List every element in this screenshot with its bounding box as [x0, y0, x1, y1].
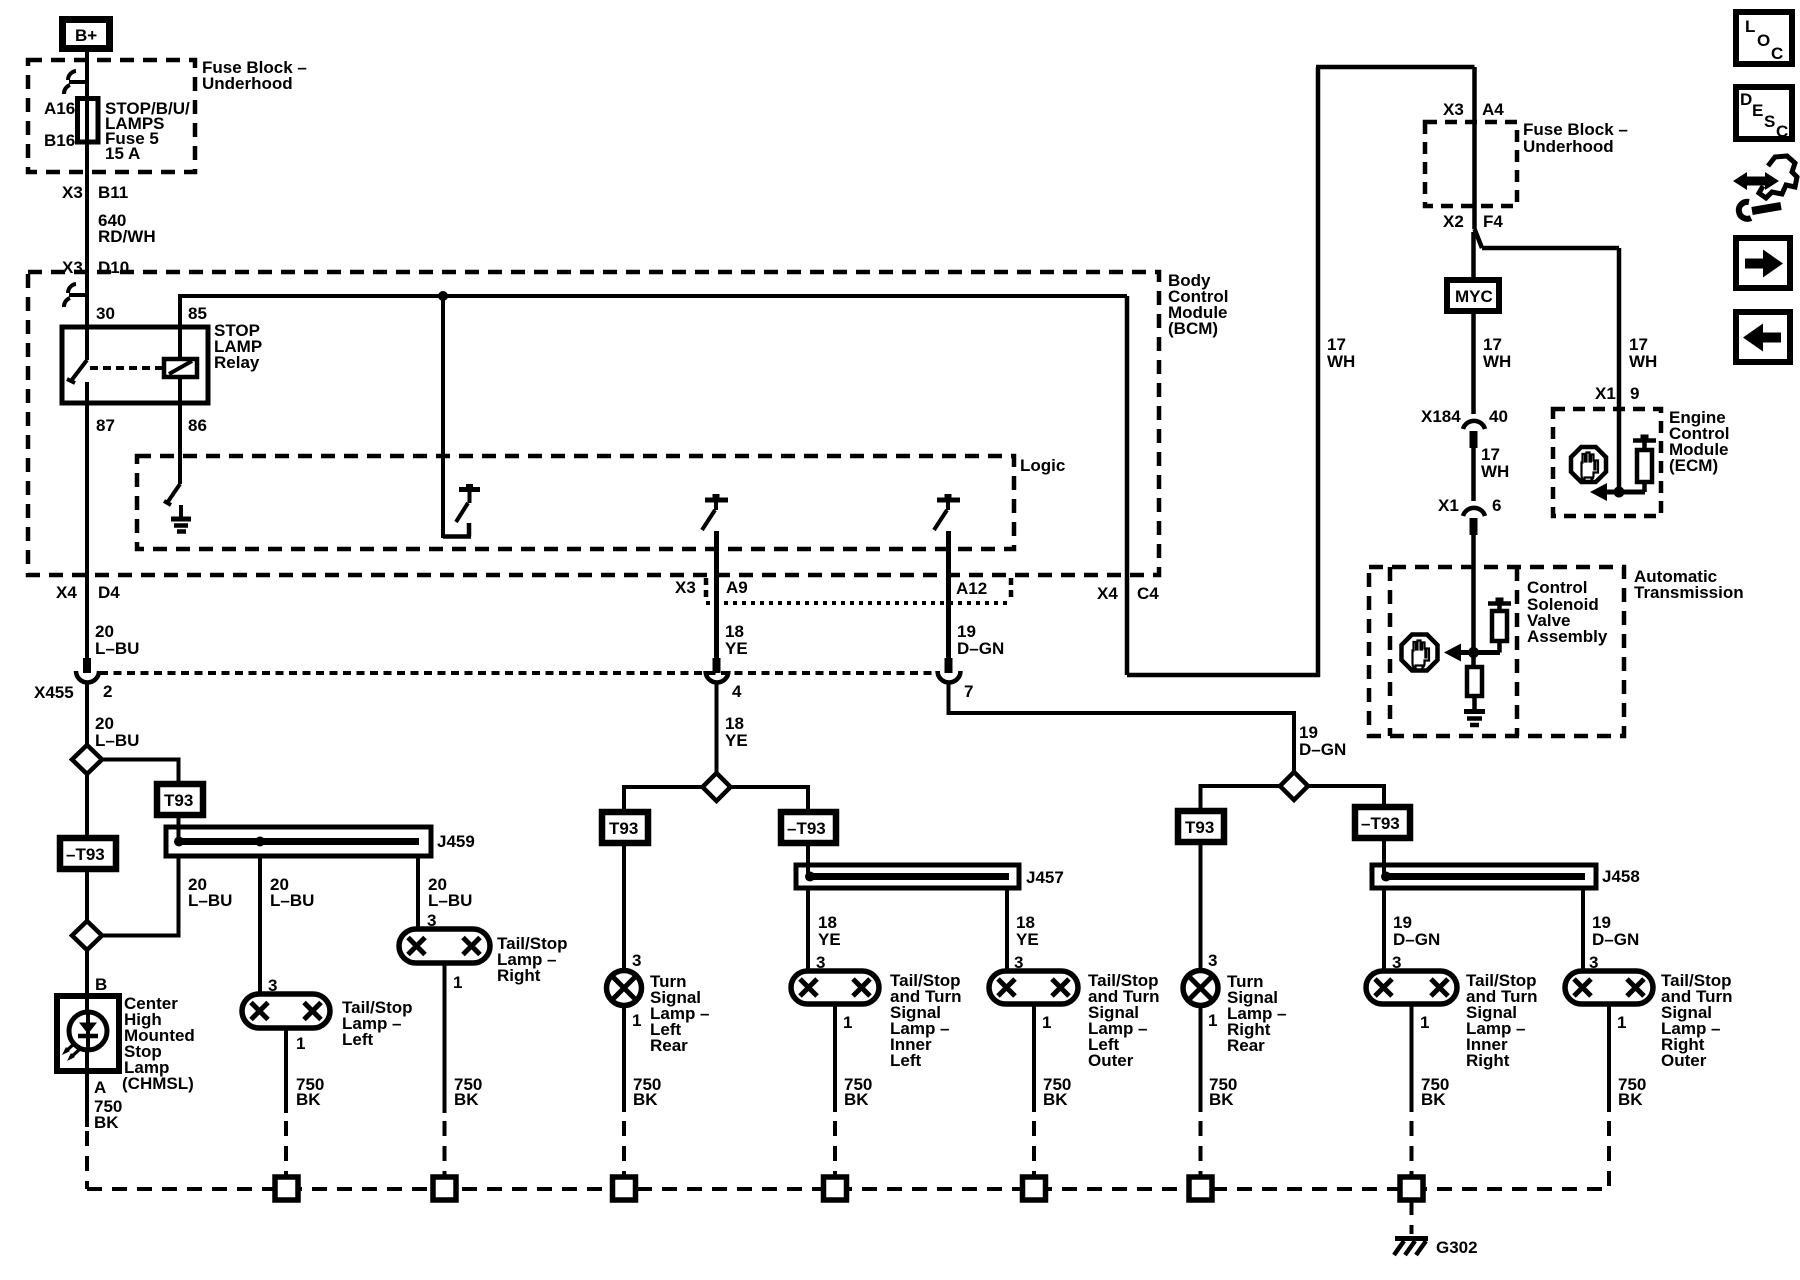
in-line splice -T93 box middle — [781, 812, 836, 843]
svg-text:1: 1 — [453, 973, 462, 992]
svg-text:T93: T93 — [164, 791, 193, 810]
wire down to fuse block 2 — [1472, 67, 1477, 229]
connector X1 6 — [1463, 508, 1485, 516]
svg-text:RD/WH: RD/WH — [98, 227, 156, 246]
svg-text:YE: YE — [1016, 930, 1039, 949]
AT ground symbol — [1464, 709, 1485, 714]
wire J459 exit 1 loop to diamond 2 — [100, 856, 179, 936]
automatic transmission dashed box — [1369, 567, 1624, 736]
wire conn4 to splice diamond 3 — [715, 683, 719, 774]
svg-text:D: D — [1740, 90, 1752, 109]
wire X1 into automatic transmission — [1471, 535, 1476, 653]
svg-text:–T93: –T93 — [1361, 814, 1400, 833]
svg-text:Rear: Rear — [1227, 1036, 1265, 1055]
relay coil box — [164, 359, 197, 377]
wire ECM leg down — [1617, 248, 1622, 492]
in-line splice T93 box middle — [602, 812, 648, 843]
in-line splice -T93 box right — [1355, 807, 1410, 838]
logic switch 1 T contact — [459, 487, 480, 492]
ECM junction node — [1614, 487, 1625, 498]
svg-text:B11: B11 — [98, 183, 128, 202]
svg-text:(ECM): (ECM) — [1669, 456, 1718, 475]
svg-text:1: 1 — [843, 1013, 852, 1032]
svg-text:L–BU: L–BU — [188, 891, 232, 910]
tail/stop and turn signal lamp right outer — [1565, 971, 1653, 1004]
AT junction node — [1468, 647, 1479, 658]
wire BCM C4 leg down — [1125, 296, 1130, 675]
svg-text:L–BU: L–BU — [95, 731, 139, 750]
ground G302 symbol — [1395, 1236, 1428, 1241]
ground splice square node 4 — [824, 1177, 847, 1200]
tail/stop and turn signal lamp inner right — [1366, 971, 1457, 1004]
wire top horizontal to fuse block 2 — [1316, 65, 1475, 70]
svg-text:D4: D4 — [98, 583, 120, 602]
svg-text:WH: WH — [1327, 352, 1355, 371]
svg-text:C4: C4 — [1137, 584, 1159, 603]
svg-text:86: 86 — [188, 416, 207, 435]
ground lead dashed turn right rear — [1199, 1121, 1203, 1177]
svg-text:F4: F4 — [1483, 212, 1503, 231]
ground lead dashed left tail lamp — [284, 1121, 288, 1177]
wire main to -T93 — [85, 774, 89, 839]
wire turn lamp left rear ground lead — [622, 1006, 626, 1113]
svg-text:A: A — [94, 1078, 106, 1097]
svg-text:–T93: –T93 — [66, 845, 105, 864]
svg-text:X1: X1 — [1438, 496, 1459, 515]
wire relay pin30 leg to X455 — [85, 403, 89, 659]
ground bus dashed wire — [87, 1187, 1609, 1191]
ground lead dashed right outer with bend — [1607, 1121, 1611, 1189]
svg-text:L–BU: L–BU — [95, 639, 139, 658]
svg-text:WH: WH — [1481, 462, 1509, 481]
svg-text:B16: B16 — [44, 131, 75, 150]
wire diamond4 to T93 right — [1201, 786, 1283, 813]
ground splice square node 3 — [613, 1177, 636, 1200]
svg-text:7: 7 — [964, 682, 973, 701]
relay switch pin30 wire — [85, 327, 89, 360]
control solenoid valve assembly inner dashed box — [1388, 567, 1393, 736]
svg-text:Right: Right — [497, 966, 541, 985]
ground lead dashed turn left rear — [622, 1121, 626, 1177]
svg-text:YE: YE — [725, 731, 748, 750]
svg-text:Left: Left — [342, 1030, 374, 1049]
ECM internal arrow wire — [1604, 490, 1645, 495]
svg-text:BK: BK — [1209, 1090, 1234, 1109]
svg-text:3: 3 — [632, 951, 641, 970]
body control module BCM dashed box — [28, 272, 1159, 575]
tail/stop and turn signal lamp left outer — [989, 971, 1078, 1004]
in-line splice T93 box left — [157, 784, 203, 815]
svg-text:B+: B+ — [75, 26, 97, 45]
svg-text:2: 2 — [103, 682, 112, 701]
svg-text:A12: A12 — [956, 579, 987, 598]
connector X184 40 — [1463, 421, 1485, 429]
connector X455 pin 4 — [713, 658, 721, 673]
center high mounted stop lamp CHMSL — [57, 996, 119, 1071]
svg-text:BK: BK — [1421, 1090, 1446, 1109]
wire diamond4 to -T93 right — [1306, 786, 1384, 809]
BCM connector X3 bracket right — [1009, 578, 1014, 601]
svg-text:30: 30 — [96, 304, 115, 323]
svg-text:4: 4 — [732, 682, 742, 701]
svg-text:1: 1 — [296, 1034, 305, 1053]
svg-text:Underhood: Underhood — [202, 74, 293, 93]
wire branch horizontal to ECM leg — [1482, 246, 1619, 251]
wire J459 exit 2 to left tail lamp — [258, 856, 262, 994]
sidebar back arrow button — [1736, 312, 1790, 362]
wire CHMSL ground lead — [85, 1071, 89, 1127]
svg-text:Underhood: Underhood — [1523, 137, 1614, 156]
connector X455 pin 7 — [945, 658, 953, 673]
svg-text:X3: X3 — [62, 183, 83, 202]
svg-text:X2: X2 — [1443, 212, 1464, 231]
svg-text:3: 3 — [1208, 951, 1217, 970]
svg-text:X184: X184 — [1421, 407, 1461, 426]
relay pin85 wire up — [178, 327, 182, 359]
svg-text:X3: X3 — [1443, 100, 1464, 119]
logic switch 2 blade — [702, 510, 715, 530]
svg-text:A16: A16 — [44, 99, 75, 118]
svg-text:6: 6 — [1492, 496, 1501, 515]
ground splice square node 5 — [1023, 1177, 1046, 1200]
svg-text:X1: X1 — [1595, 384, 1616, 403]
svg-text:G302: G302 — [1436, 1238, 1478, 1257]
wire inner right lamp ground lead — [1410, 1004, 1414, 1112]
svg-text:J458: J458 — [1602, 867, 1640, 886]
svg-text:BK: BK — [454, 1090, 479, 1109]
logic dashed box — [137, 456, 1014, 549]
svg-text:X3: X3 — [675, 578, 696, 597]
ground splice square node 6 — [1189, 1177, 1212, 1200]
svg-text:J457: J457 — [1026, 868, 1064, 887]
junction node on pin85 wire — [438, 291, 448, 301]
svg-text:D–GN: D–GN — [1592, 930, 1639, 949]
svg-text:BK: BK — [633, 1090, 658, 1109]
svg-text:D–GN: D–GN — [1299, 740, 1346, 759]
svg-text:J459: J459 — [437, 832, 475, 851]
wire X455 to splice diamond 1 — [85, 683, 89, 745]
svg-text:D–GN: D–GN — [957, 639, 1004, 658]
svg-text:1: 1 — [1042, 1013, 1051, 1032]
svg-text:Outer: Outer — [1661, 1051, 1707, 1070]
svg-text:T93: T93 — [1185, 818, 1214, 837]
svg-text:E: E — [1752, 101, 1763, 120]
svg-text:BK: BK — [1043, 1090, 1068, 1109]
svg-text:BK: BK — [844, 1090, 869, 1109]
ground lead dashed inner left — [833, 1121, 837, 1177]
svg-text:B: B — [95, 975, 107, 994]
svg-text:1: 1 — [632, 1011, 641, 1030]
ground splice square node 7 — [1400, 1177, 1423, 1200]
splice diamond 1 — [72, 745, 102, 774]
svg-text:X4: X4 — [56, 583, 77, 602]
relay pin86 wire down — [178, 377, 182, 403]
switch for relay 86 inside logic — [167, 484, 180, 503]
relay switch blade — [71, 360, 87, 381]
wire diamond2 to CHMSL — [85, 950, 89, 996]
svg-text:Relay: Relay — [214, 353, 260, 372]
splice pack J458 — [1372, 865, 1596, 888]
svg-text:X4: X4 — [1097, 584, 1118, 603]
svg-text:A9: A9 — [726, 578, 748, 597]
wire left outer lamp ground lead — [1032, 1004, 1036, 1112]
svg-text:87: 87 — [96, 416, 115, 435]
svg-text:Logic: Logic — [1020, 456, 1065, 475]
ground lead dashed left outer — [1032, 1121, 1036, 1177]
wire diamond3 to T93 middle — [624, 787, 704, 813]
svg-text:Assembly: Assembly — [1527, 627, 1608, 646]
wire T93 to J459 — [177, 815, 181, 841]
AT solenoid resistor lower — [1471, 653, 1476, 668]
wire conn7 bend to diamond 4 — [949, 683, 1295, 774]
stop lamp relay K box — [62, 327, 208, 403]
splice pack J459 — [166, 827, 431, 856]
wire junction to logic switch 1 — [441, 296, 445, 538]
ground splice square node 1 — [275, 1177, 298, 1200]
splice diamond 2 — [72, 921, 102, 950]
wire J457 exit 1 to inner left lamp — [806, 888, 810, 971]
wire J458 exit 2 to right outer lamp — [1581, 888, 1585, 971]
svg-text:1: 1 — [1420, 1013, 1429, 1032]
sidebar vehicle navigation icon — [1733, 156, 1797, 219]
logic switch 1 L bracket — [443, 523, 471, 537]
svg-text:WH: WH — [1483, 352, 1511, 371]
turn signal lamp left rear — [607, 971, 642, 1006]
svg-text:1: 1 — [1617, 1013, 1626, 1032]
sidebar DESC button — [1736, 87, 1792, 139]
AT internal arrow wire — [1458, 650, 1500, 655]
svg-text:Rear: Rear — [650, 1036, 688, 1055]
svg-text:YE: YE — [818, 930, 841, 949]
MYC splice box — [1447, 280, 1499, 311]
ground splice square node 2 — [433, 1177, 456, 1200]
ground symbol inside logic — [179, 505, 183, 519]
svg-text:85: 85 — [188, 304, 207, 323]
svg-text:9: 9 — [1630, 384, 1639, 403]
splice diamond 3 — [703, 773, 731, 801]
ECM driver hand octagon — [1571, 447, 1606, 482]
engine control module dashed box — [1553, 409, 1661, 516]
logic switch 3 blade — [934, 510, 947, 530]
tail/stop lamp right — [399, 929, 490, 963]
fuse block underhood dashed box — [28, 60, 195, 172]
svg-text:15 A: 15 A — [105, 144, 140, 163]
wire jog below F4 — [1475, 229, 1483, 248]
wire right outer lamp ground lead — [1607, 1004, 1611, 1112]
AT driver hand octagon — [1402, 635, 1438, 671]
sidebar LOC button — [1736, 12, 1792, 64]
fuse block underhood 2 dashed box — [1425, 122, 1517, 206]
wire turn lamp right rear ground lead — [1199, 1006, 1203, 1113]
svg-text:BK: BK — [1618, 1090, 1643, 1109]
svg-text:(CHMSL): (CHMSL) — [122, 1074, 194, 1093]
svg-text:L: L — [1745, 17, 1755, 36]
svg-text:BK: BK — [94, 1113, 119, 1132]
wire T93 to turn signal lamp left rear — [622, 843, 626, 971]
connector X455 pin 2 — [83, 658, 91, 673]
svg-text:Transmission: Transmission — [1634, 583, 1744, 602]
wire through fuse — [85, 100, 89, 142]
AT solenoid resistor upper — [1492, 611, 1507, 641]
wire diamond1 to T93 — [100, 760, 179, 786]
sidebar next arrow button — [1736, 238, 1790, 288]
svg-text:1: 1 — [1208, 1011, 1217, 1030]
splice diamond 4 — [1280, 772, 1308, 800]
wire -T93 to J457 — [806, 843, 810, 876]
wire -T93 to J458 — [1382, 838, 1386, 876]
relay switch lower contact wire to pin 87 — [85, 382, 89, 403]
wire right riser up — [1316, 67, 1321, 677]
wire inner left lamp ground lead — [833, 1004, 837, 1112]
ground lead dashed inner right — [1410, 1121, 1414, 1177]
wire J459 exit 3 to right tail lamp — [416, 856, 420, 929]
svg-text:S: S — [1764, 112, 1775, 131]
wire J458 exit 1 to inner right lamp — [1382, 888, 1386, 971]
in-line splice T93 box right — [1178, 811, 1224, 842]
logic switch 2 T contact — [705, 498, 728, 503]
wire T93 to turn signal lamp right rear — [1199, 842, 1203, 971]
svg-text:X455: X455 — [34, 683, 74, 702]
connector X455 dashed line — [100, 671, 940, 675]
wire fuse to BCM — [85, 142, 89, 327]
svg-text:YE: YE — [725, 639, 748, 658]
svg-text:C: C — [1771, 44, 1783, 63]
svg-text:C: C — [1776, 122, 1788, 141]
svg-text:O: O — [1757, 31, 1770, 50]
fuse STOP/B/U/LAMPS Fuse 5 15A — [78, 99, 99, 143]
svg-text:(BCM): (BCM) — [1168, 319, 1218, 338]
connector hook at BCM D10 entry — [69, 293, 87, 297]
wire B+ to fuse block — [85, 52, 89, 100]
svg-text:BK: BK — [296, 1090, 321, 1109]
tail/stop and turn signal lamp inner left — [791, 971, 879, 1004]
ground G302 dashed lead — [1410, 1200, 1414, 1234]
svg-text:T93: T93 — [609, 819, 638, 838]
svg-text:Right: Right — [1466, 1051, 1510, 1070]
svg-text:D–GN: D–GN — [1393, 930, 1440, 949]
wire BCM pin A12 down — [946, 531, 951, 658]
svg-text:L–BU: L–BU — [428, 891, 472, 910]
svg-text:MYC: MYC — [1455, 287, 1493, 306]
ground lead dashed CHMSL — [85, 1131, 89, 1189]
svg-text:Outer: Outer — [1088, 1051, 1134, 1070]
turn signal lamp right rear — [1183, 971, 1218, 1006]
BCM connector X3 bracket left — [704, 578, 709, 601]
in-line splice -T93 box left — [60, 838, 116, 869]
wire horizontal to right riser — [1127, 673, 1320, 678]
splice pack J457 — [796, 865, 1019, 888]
svg-text:40: 40 — [1489, 407, 1508, 426]
logic switch 3 T contact — [937, 498, 960, 503]
svg-text:WH: WH — [1629, 352, 1657, 371]
wire BCM pin A9 down — [714, 531, 719, 658]
svg-text:Left: Left — [890, 1051, 922, 1070]
tail/stop lamp left — [242, 994, 330, 1028]
wire X184 to X1 — [1471, 448, 1476, 501]
svg-text:L–BU: L–BU — [270, 891, 314, 910]
ECM pull-up resistor — [1637, 450, 1652, 482]
wire diamond3 to -T93 middle — [729, 787, 808, 814]
battery B+ box — [63, 20, 110, 49]
wire main down through MYC — [1471, 232, 1476, 414]
logic switch 1 blade — [456, 503, 468, 522]
wire -T93 to diamond 2 — [85, 869, 89, 921]
connector hook at fuse block entry — [69, 80, 87, 84]
BCM connector X3 dotted outline — [706, 601, 1012, 605]
wire pin85 horizontal to BCM C4 leg — [180, 294, 1127, 298]
svg-text:–T93: –T93 — [787, 819, 826, 838]
wire left tail lamp ground lead — [284, 1028, 288, 1113]
ground lead dashed right tail lamp — [443, 1121, 447, 1177]
relay actuation dashed link — [90, 366, 164, 370]
wire J457 exit 2 to left outer lamp — [1005, 888, 1009, 971]
svg-text:A4: A4 — [1482, 100, 1504, 119]
wire right tail lamp ground lead — [443, 963, 447, 1113]
